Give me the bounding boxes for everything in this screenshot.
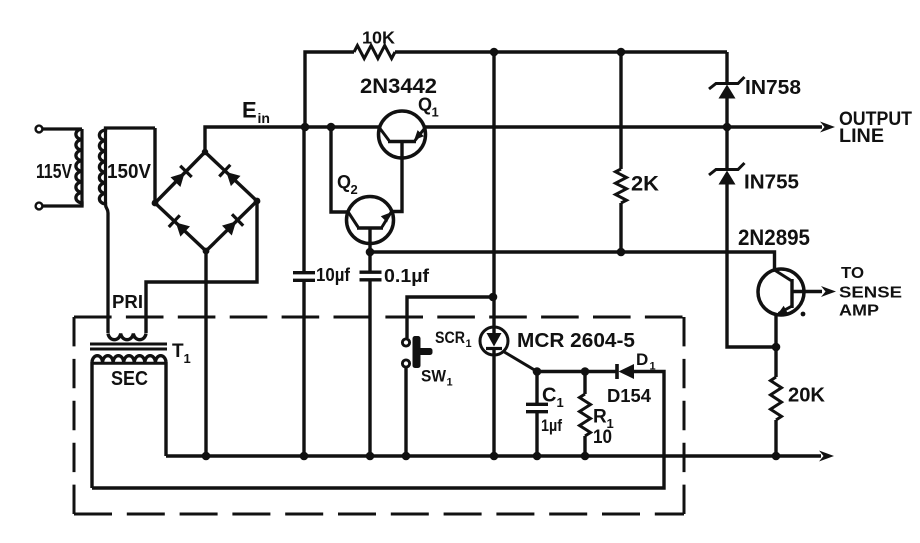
svg-text:1: 1 [432,105,439,120]
label MCR 2604-5 [517,329,635,352]
svg-text:1: 1 [447,377,453,389]
junction ground rail x=206 [202,452,211,461]
svg-text:1: 1 [184,351,191,366]
svg-text:20K: 20K [788,385,826,407]
transformer T1 secondary coil [92,356,166,362]
node E_in / 10uF junction [301,123,310,132]
transistor Q1 internals [388,140,416,143]
wire E_in line (bridge top to zener column) [205,127,727,152]
terminal input top [36,126,43,133]
svg-text:IN758: IN758 [745,77,801,99]
wire to 2N2895 collector [727,252,775,270]
wire bridge bottom to ground rail [204,251,207,456]
switch SW1 contacts [402,339,409,346]
transistor Q2 body [347,197,394,244]
label 10uF [316,265,351,285]
wire zener column top [725,52,728,84]
junction ground rail x=304 [300,452,309,461]
svg-text:PRI: PRI [112,292,143,312]
label Q2 [337,172,351,192]
node top rail / 2K [617,48,626,57]
label 2N3442 [360,74,437,98]
resistor 2K [619,52,622,169]
diode bridge top-right [226,172,240,186]
diode bridge top-left [171,173,185,187]
capacitor 0.1uF [368,252,371,272]
wire SCR anode column [492,52,495,327]
svg-text:LINE: LINE [839,126,884,147]
svg-text:10µf: 10µf [316,265,351,285]
svg-text:in: in [258,110,270,126]
transistor Q1 2N3442 body [379,111,426,158]
svg-text:D: D [636,350,648,369]
transistor 2N2895 body [758,269,804,315]
zener 1N758 [709,77,745,89]
capacitor C1 [535,372,538,405]
node output line / zener [723,123,732,132]
label 10K [362,28,395,48]
arrow to sense amp [821,286,836,297]
label R1 value 10 [593,427,612,448]
label 0.1uF [384,266,430,286]
label SW1 [421,367,447,386]
wire between zeners [725,96,728,170]
wire 2N2895 emitter [774,314,777,347]
svg-text:AMP: AMP [839,303,879,320]
label 20K [788,385,826,407]
svg-text:0.1µf: 0.1µf [384,266,430,286]
node Q2 base branch [327,123,336,132]
diode bridge bottom-right [222,221,236,235]
label AMP [839,303,879,320]
dashed enclosure bottom edge [74,513,684,516]
wire E_in to Q2 base [331,127,349,212]
inductor 115V primary winding [43,129,82,206]
label 1N755 [744,172,799,194]
junction ground rail x=537 [533,452,542,461]
svg-text:MCR 2604-5: MCR 2604-5 [517,329,635,352]
wire bridge right vertex to T1 primary [146,201,257,333]
svg-text:R: R [593,407,607,428]
wire top rail left [305,52,354,127]
diode D1 D154 [615,364,619,379]
junction ground rail x=585 [581,452,590,461]
svg-text:TO: TO [841,265,864,282]
transistor 2N2895 internals [790,279,793,308]
junction ground rail x=406 [402,452,411,461]
svg-text:T: T [172,341,184,362]
inductor 150V secondary winding + lead to T1 [99,128,155,333]
svg-text:IN755: IN755 [744,172,799,194]
node bridge right vertex [254,198,261,205]
label 150V [107,161,152,183]
svg-text:SENSE: SENSE [839,285,902,302]
svg-text:10K: 10K [362,28,395,48]
svg-text:2N2895: 2N2895 [738,225,810,250]
svg-text:150V: 150V [107,161,152,183]
svg-text:SW: SW [421,367,447,386]
transistor Q2 internals [357,226,383,229]
wire D1 to return loop [92,372,664,489]
svg-text:10: 10 [593,427,612,448]
diode bridge bottom-left [176,223,190,237]
node top rail / SCR anode [490,48,499,57]
label D1 [636,350,648,369]
label SEC [111,368,148,390]
label OUTPUT [839,109,912,130]
svg-text:E: E [242,98,257,123]
wire SCR gate [504,352,538,372]
resistor 20K [774,347,777,377]
label LINE [839,126,884,147]
label R1 [593,407,607,428]
dashed enclosure right edge [683,317,686,514]
label 1N758 [745,77,801,99]
zener 1N755 [709,163,745,175]
resistor 10K [354,46,395,59]
wire SW1 to ground rail [404,367,407,457]
label 1uF [541,416,562,435]
node Q2 emitter junction [366,248,375,257]
label T1 [172,341,184,362]
arrow output line [727,125,822,128]
svg-text:2: 2 [351,182,358,197]
junction ground rail x=776 [772,452,781,461]
svg-text:SCR: SCR [435,328,465,347]
wire ground rail [166,454,821,457]
node bridge left vertex [152,200,159,207]
svg-text:Q: Q [337,172,351,192]
label E_in [242,98,257,123]
stray printed dot [801,312,806,317]
wire 150V top to bridge left vertex [153,128,156,203]
svg-text:2K: 2K [631,173,659,196]
junction ground rail x=370 [366,452,375,461]
node SW1 branch junction [489,293,498,302]
SCR1 body [480,327,508,355]
dashed enclosure top edge [74,316,684,319]
T1 core [90,343,167,346]
svg-text:SEC: SEC [111,368,148,390]
svg-text:C: C [542,385,556,407]
svg-text:D154: D154 [607,386,651,406]
label PRI [112,292,143,312]
label 2N2895 [738,225,810,250]
wire SCR cathode [492,349,495,456]
label 115V [36,161,73,183]
switch SW1 lever [413,336,421,368]
svg-text:1: 1 [466,338,472,350]
wire Q2 emitter to mid rail [370,243,727,252]
wire top rail right [395,50,727,53]
svg-text:1: 1 [557,395,564,410]
svg-text:1µf: 1µf [541,416,562,435]
wire SEC right lead to ground rail [164,362,167,456]
node SCR gate junction [533,367,542,376]
svg-text:115V: 115V [36,161,73,183]
node 2N2895 emitter junction [772,343,781,352]
transformer T1 primary coil [108,334,146,340]
label 2K [631,173,659,196]
capacitor 10uF [302,127,305,272]
svg-text:Q: Q [418,95,432,115]
label D154 [607,386,651,406]
label Q1 [418,95,432,115]
wire zener column bottom [725,182,728,252]
junction ground rail x=494 [490,452,499,461]
wire 2N2895 left bypass [727,252,776,347]
dashed enclosure left edge [73,317,76,514]
bridge rectifier diamond [155,152,257,251]
node mid rail / 2K [617,248,626,257]
label SCR1 [435,328,465,347]
resistor R1 [583,372,586,395]
node bridge bottom vertex [203,248,210,255]
label C1 [542,385,556,407]
node R1 top [581,367,590,376]
terminal input bottom [36,203,43,210]
wire gate node line [537,370,616,373]
wire SW1 branch to SCR anode [407,297,493,338]
label SENSE [839,285,902,302]
label TO [841,265,864,282]
node bridge top vertex [202,149,208,155]
SCR1 internals [492,327,495,334]
wire SEC left lead [90,362,93,488]
